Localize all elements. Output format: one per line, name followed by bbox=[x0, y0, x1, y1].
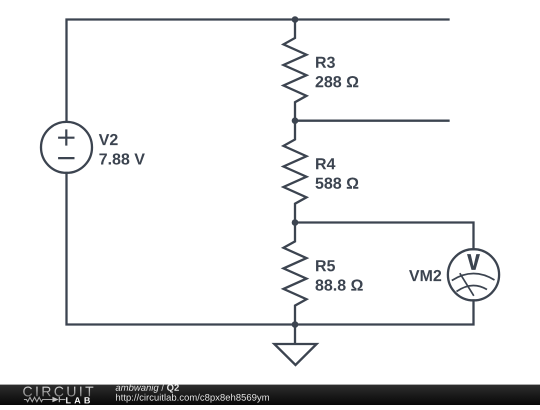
wire left bottom from V2 to bottom rail bbox=[67, 173, 296, 325]
wire bottom from voltmeter to bottom rail bbox=[295, 300, 474, 324]
value 7.88 V bbox=[99, 153, 144, 164]
wire middle dangling from node B bbox=[295, 120, 449, 122]
wire top-right dangling bbox=[295, 18, 449, 20]
label VM2 bbox=[409, 270, 441, 281]
value 588 ohm bbox=[315, 178, 358, 189]
voltmeter V glyph bbox=[467, 254, 480, 270]
wire node C to voltmeter bbox=[295, 223, 474, 250]
node C bbox=[292, 219, 299, 226]
wire top from V2 to node A bbox=[67, 20, 296, 122]
logo CIRCUIT text bbox=[23, 387, 93, 397]
voltmeter VM2 bbox=[448, 249, 499, 300]
value 88.8 ohm bbox=[316, 279, 363, 290]
resistor R5 bbox=[284, 223, 307, 325]
node D bbox=[292, 321, 299, 328]
logo LAB text bbox=[66, 397, 90, 403]
footer url bbox=[116, 394, 269, 403]
footer bar bbox=[0, 385, 540, 405]
label R4 bbox=[316, 158, 335, 169]
label V2 bbox=[99, 134, 118, 145]
footer title ambwanig / Q2 bbox=[116, 384, 179, 393]
resistor R3 bbox=[284, 20, 307, 121]
voltage source V2 bbox=[41, 122, 92, 173]
label R3 bbox=[316, 57, 335, 68]
node B bbox=[292, 117, 299, 124]
value 288 ohm bbox=[316, 76, 359, 87]
label R5 bbox=[316, 260, 335, 271]
logo squiggle resistor-diode bbox=[24, 397, 66, 402]
resistor R4 bbox=[284, 121, 307, 223]
node A bbox=[292, 16, 299, 23]
ground bbox=[294, 325, 296, 343]
